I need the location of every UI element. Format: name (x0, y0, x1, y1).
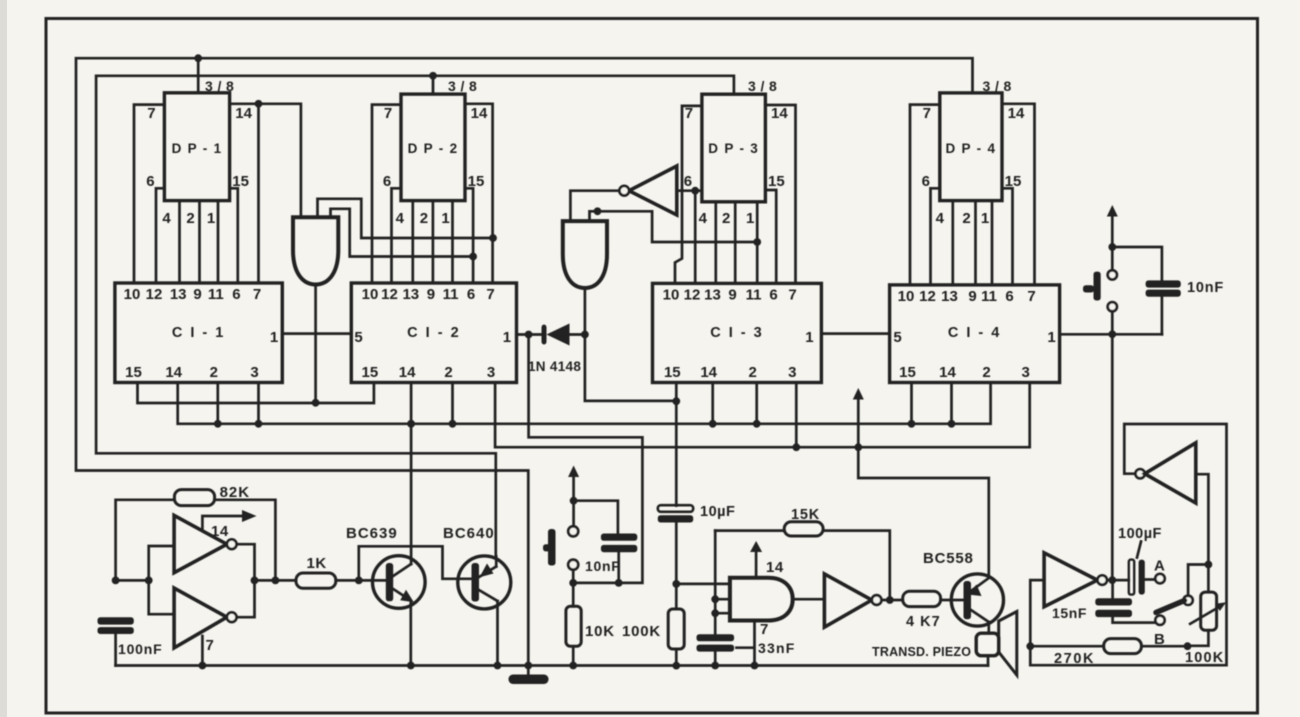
svg-text:7: 7 (685, 105, 693, 122)
svg-text:15: 15 (899, 364, 916, 381)
svg-text:15: 15 (125, 364, 142, 381)
svg-text:15: 15 (664, 364, 681, 381)
svg-text:15: 15 (768, 173, 785, 190)
svg-text:D P - 4: D P - 4 (945, 141, 996, 156)
svg-text:2: 2 (749, 364, 757, 381)
svg-text:3: 3 (1022, 364, 1030, 381)
svg-text:4: 4 (936, 210, 945, 227)
svg-text:6: 6 (769, 286, 777, 303)
svg-text:3 / 8: 3 / 8 (983, 78, 1012, 94)
svg-text:7: 7 (486, 286, 494, 303)
svg-text:10: 10 (124, 286, 141, 303)
svg-text:10: 10 (362, 286, 379, 303)
svg-text:13: 13 (704, 286, 721, 303)
svg-text:2: 2 (962, 210, 970, 227)
svg-text:7: 7 (384, 105, 392, 122)
svg-text:3: 3 (487, 364, 495, 381)
svg-text:6: 6 (1005, 288, 1013, 305)
svg-text:BC639: BC639 (346, 525, 398, 542)
svg-text:100nF: 100nF (118, 641, 162, 657)
svg-text:3 / 8: 3 / 8 (748, 78, 777, 94)
svg-text:6: 6 (232, 286, 240, 303)
svg-text:15K: 15K (791, 507, 820, 523)
svg-text:6: 6 (922, 173, 930, 190)
svg-text:1: 1 (981, 210, 989, 227)
svg-text:12: 12 (381, 286, 398, 303)
svg-text:7: 7 (253, 286, 261, 303)
svg-text:12: 12 (919, 288, 936, 305)
svg-text:11: 11 (443, 286, 459, 303)
svg-text:100K: 100K (1185, 650, 1224, 666)
svg-text:10: 10 (663, 286, 680, 303)
svg-text:1: 1 (805, 329, 813, 346)
svg-text:10nF: 10nF (585, 558, 620, 574)
svg-text:2: 2 (420, 210, 428, 227)
svg-text:1: 1 (503, 329, 511, 346)
svg-text:14: 14 (771, 105, 788, 122)
svg-text:11: 11 (208, 286, 224, 303)
svg-text:2: 2 (982, 364, 990, 381)
svg-text:4: 4 (699, 210, 708, 227)
svg-text:BC640: BC640 (443, 525, 495, 542)
svg-text:14: 14 (700, 364, 717, 381)
svg-text:C I - 3: C I - 3 (710, 325, 763, 341)
svg-text:6: 6 (383, 173, 391, 190)
svg-text:7: 7 (760, 621, 768, 638)
svg-text:TRANSD. PIEZO: TRANSD. PIEZO (872, 645, 971, 659)
svg-text:13: 13 (941, 288, 958, 305)
svg-text:1K: 1K (307, 555, 327, 572)
svg-text:9: 9 (728, 286, 736, 303)
svg-text:15nF: 15nF (1052, 605, 1087, 621)
svg-text:100µF: 100µF (1118, 526, 1162, 542)
svg-text:B: B (1154, 631, 1165, 648)
svg-text:6: 6 (467, 286, 475, 303)
svg-text:7: 7 (788, 286, 796, 303)
svg-text:2: 2 (186, 210, 194, 227)
svg-text:BC558: BC558 (923, 550, 974, 567)
svg-text:D P - 2: D P - 2 (408, 141, 459, 156)
svg-text:3: 3 (250, 364, 258, 381)
svg-text:82K: 82K (220, 484, 251, 501)
svg-text:14: 14 (939, 364, 956, 381)
svg-text:15: 15 (232, 173, 249, 190)
svg-text:14: 14 (766, 559, 784, 576)
svg-text:4: 4 (396, 210, 405, 227)
svg-text:11: 11 (746, 286, 762, 303)
svg-text:33nF: 33nF (758, 640, 795, 656)
svg-text:7: 7 (147, 105, 155, 122)
svg-text:9: 9 (427, 286, 435, 303)
svg-text:4 K7: 4 K7 (906, 614, 941, 630)
svg-text:1: 1 (746, 210, 754, 227)
svg-text:5: 5 (354, 329, 362, 346)
svg-text:C I - 1: C I - 1 (172, 325, 225, 341)
svg-text:100K: 100K (622, 623, 661, 640)
svg-text:1: 1 (207, 210, 215, 227)
svg-text:2: 2 (444, 364, 452, 381)
svg-text:D P - 3: D P - 3 (708, 141, 759, 156)
svg-text:7: 7 (1027, 288, 1035, 305)
svg-text:1: 1 (441, 210, 449, 227)
svg-text:11: 11 (981, 288, 997, 305)
svg-text:9: 9 (968, 288, 976, 305)
svg-text:9: 9 (193, 286, 201, 303)
svg-text:A: A (1154, 558, 1165, 575)
svg-text:7: 7 (206, 637, 214, 654)
svg-text:12: 12 (146, 286, 163, 303)
svg-text:1: 1 (270, 329, 278, 346)
svg-text:C I - 2: C I - 2 (407, 325, 460, 341)
svg-text:1: 1 (1047, 329, 1055, 346)
svg-text:10µF: 10µF (700, 504, 735, 520)
svg-text:270K: 270K (1054, 651, 1095, 667)
svg-text:14: 14 (399, 364, 416, 381)
svg-text:10nF: 10nF (1187, 280, 1224, 296)
svg-text:5: 5 (893, 329, 901, 346)
svg-text:7: 7 (923, 105, 931, 122)
svg-text:13: 13 (170, 286, 187, 303)
svg-text:4: 4 (162, 210, 171, 227)
svg-text:10K: 10K (585, 623, 615, 640)
svg-text:3: 3 (788, 364, 796, 381)
svg-text:6: 6 (146, 173, 154, 190)
svg-text:14: 14 (1008, 105, 1025, 122)
svg-text:14: 14 (235, 105, 252, 122)
svg-text:14: 14 (471, 105, 488, 122)
svg-text:2: 2 (210, 364, 218, 381)
svg-text:12: 12 (684, 286, 701, 303)
svg-text:14: 14 (211, 523, 229, 540)
svg-text:6: 6 (684, 173, 692, 190)
svg-text:14: 14 (165, 364, 182, 381)
svg-text:3 / 8: 3 / 8 (448, 78, 477, 94)
svg-text:1N 4148: 1N 4148 (528, 359, 581, 374)
svg-text:13: 13 (402, 286, 419, 303)
svg-text:15: 15 (362, 364, 379, 381)
svg-text:10: 10 (898, 288, 915, 305)
svg-text:15: 15 (1005, 173, 1022, 190)
svg-text:15: 15 (468, 173, 485, 190)
svg-text:2: 2 (722, 210, 730, 227)
svg-text:3 / 8: 3 / 8 (205, 78, 234, 94)
svg-text:C I - 4: C I - 4 (948, 325, 1001, 341)
svg-text:D P - 1: D P - 1 (172, 141, 223, 156)
